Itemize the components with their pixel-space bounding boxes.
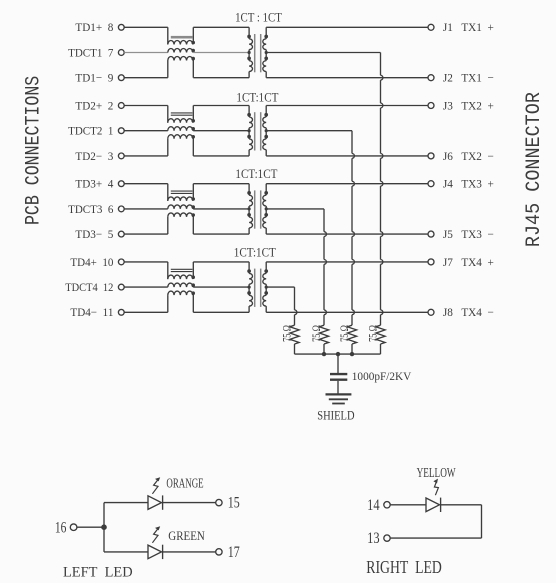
resistor R2 75 ohm — [347, 325, 356, 354]
pin J2 terminal — [428, 75, 434, 81]
pin label TD1- 9 — [75, 71, 113, 85]
common-mode choke L3 — [168, 184, 195, 234]
pin label TD2- 3 — [75, 149, 113, 163]
label 75 ohm R1 — [366, 325, 379, 342]
wire — [124, 52, 168, 54]
svg-text:J2 TX1 −: J2 TX1 − — [443, 71, 494, 85]
pin J4 terminal — [428, 181, 434, 187]
svg-text:75 Ω: 75 Ω — [338, 325, 351, 342]
wire — [266, 77, 428, 79]
svg-text:J1 TX1 +: J1 TX1 + — [443, 20, 494, 34]
wire — [193, 130, 249, 132]
pin label J6 TX2 - — [443, 149, 494, 163]
wire — [193, 311, 249, 313]
LED D1 orange — [148, 495, 163, 509]
pin label 17 — [228, 544, 240, 561]
resistor R4 75 ohm — [290, 325, 299, 354]
wire — [104, 502, 148, 504]
common-mode choke L2 — [168, 106, 195, 156]
svg-text:TD2− 3: TD2− 3 — [75, 149, 113, 163]
pin J5 terminal — [428, 231, 434, 237]
svg-text:TDCT1 7: TDCT1 7 — [68, 45, 113, 59]
wire — [193, 26, 249, 28]
pin label J4 TX3 + — [443, 177, 494, 191]
svg-text:TD1+ 8: TD1+ 8 — [75, 20, 113, 34]
label 1CT:1CT — [235, 166, 277, 181]
wire — [266, 208, 324, 210]
pin 11 terminal — [118, 309, 124, 315]
pin 12 terminal — [118, 284, 124, 290]
wire — [266, 130, 352, 132]
label GREEN — [168, 528, 205, 543]
svg-text:1CT:1CT: 1CT:1CT — [235, 166, 277, 181]
svg-text:TDCT3 6: TDCT3 6 — [68, 202, 113, 216]
wire — [124, 130, 168, 132]
pin label J7 TX4 + — [443, 255, 494, 269]
svg-text:TD2+ 2: TD2+ 2 — [75, 98, 113, 112]
wire — [266, 286, 294, 288]
wire — [337, 354, 339, 373]
transformer T3 — [247, 184, 268, 234]
wire — [124, 155, 168, 157]
wire — [193, 155, 249, 157]
wire — [124, 208, 168, 210]
pin label TD3- 5 — [75, 227, 113, 241]
pin label TD3+ 4 — [75, 177, 113, 191]
wire center-tap column ch1 — [381, 53, 383, 326]
pin 4 terminal — [118, 181, 124, 187]
svg-text:14: 14 — [367, 497, 380, 514]
wire — [266, 311, 428, 313]
pin 7 terminal — [118, 50, 124, 56]
wire — [266, 52, 380, 54]
pin 14 terminal — [384, 502, 390, 508]
wire — [337, 381, 339, 394]
svg-text:75 Ω: 75 Ω — [280, 325, 293, 342]
svg-text:LEFT LED: LEFT LED — [63, 565, 133, 581]
pin label 15 — [228, 495, 240, 512]
wire — [77, 526, 104, 528]
wire — [193, 52, 249, 54]
svg-text:TD1− 9: TD1− 9 — [75, 71, 113, 85]
svg-text:TDCT4 12: TDCT4 12 — [65, 280, 113, 294]
wire — [124, 183, 168, 185]
svg-text:J4 TX3 +: J4 TX3 + — [443, 177, 494, 191]
pin 5 terminal — [118, 231, 124, 237]
label YELLOW — [417, 465, 456, 480]
wire — [124, 105, 168, 107]
pin label TD1+ 8 — [75, 20, 113, 34]
svg-text:1000pF/2KV: 1000pF/2KV — [352, 369, 412, 383]
wire — [103, 503, 105, 552]
svg-text:TDCT2 1: TDCT2 1 — [68, 124, 113, 138]
wire — [124, 26, 168, 28]
pin J3 terminal — [428, 103, 434, 109]
LED D1 emission arrow — [152, 477, 160, 494]
pin 8 terminal — [118, 24, 124, 30]
svg-text:15: 15 — [228, 495, 240, 512]
svg-text:J3 TX2 +: J3 TX2 + — [443, 98, 494, 112]
pin J8 terminal — [428, 309, 434, 315]
transformer T1 — [247, 27, 268, 77]
common-mode choke L4 — [168, 262, 195, 312]
wire center-tap column ch2 — [352, 131, 354, 326]
label 1000pF/2KV — [352, 369, 412, 383]
junction — [336, 352, 340, 356]
wire — [124, 233, 168, 235]
svg-text:16: 16 — [55, 519, 67, 536]
pin label TDCT4 12 — [65, 280, 113, 294]
resistor R1 75 ohm — [376, 325, 385, 354]
label PCB CONNECTIONS (left title) — [22, 76, 45, 225]
pin label TD4- 11 — [70, 305, 113, 319]
common-mode choke L1 — [168, 27, 195, 77]
wire — [163, 551, 216, 553]
svg-text:TD4+ 10: TD4+ 10 — [70, 255, 113, 269]
pin label J5 TX3 - — [443, 227, 494, 241]
wire — [193, 286, 249, 288]
label ORANGE — [166, 476, 203, 491]
wire — [163, 502, 216, 504]
svg-text:1CT : 1CT: 1CT : 1CT — [235, 10, 282, 25]
label 1CT : 1CT — [235, 10, 282, 25]
svg-text:1CT:1CT: 1CT:1CT — [234, 245, 276, 260]
pin label 16 — [55, 519, 67, 536]
wire — [124, 311, 168, 313]
wire — [193, 233, 249, 235]
svg-text:J6 TX2 −: J6 TX2 − — [443, 149, 494, 163]
svg-text:13: 13 — [367, 530, 380, 547]
pin 13 terminal — [384, 535, 390, 541]
LED D3 emission arrow — [433, 479, 438, 496]
pin label J3 TX2 + — [443, 98, 494, 112]
wire — [266, 183, 428, 185]
wire — [193, 77, 249, 79]
junction node — [101, 524, 107, 530]
svg-text:J8 TX4 −: J8 TX4 − — [443, 305, 494, 319]
pin label TD4+ 10 — [70, 255, 113, 269]
wire — [193, 105, 249, 107]
wire — [193, 261, 249, 263]
pin label TDCT2 1 — [68, 124, 113, 138]
pin 10 terminal — [118, 259, 124, 265]
wire — [481, 505, 483, 538]
wire — [193, 183, 249, 185]
wire — [266, 261, 428, 263]
wire — [266, 105, 428, 107]
wire — [124, 261, 168, 263]
svg-text:RJ45 CONNECTOR: RJ45 CONNECTOR — [522, 92, 545, 247]
label 75 ohm R2 — [338, 325, 351, 342]
svg-text:TD4− 11: TD4− 11 — [70, 305, 113, 319]
pin 9 terminal — [118, 75, 124, 81]
LED D2 emission arrow — [152, 526, 160, 543]
resistor R3 75 ohm — [319, 325, 328, 354]
LED D3 yellow — [426, 498, 441, 512]
label RIGHT LED — [366, 557, 442, 577]
wire center-tap column ch3 — [324, 209, 326, 325]
wire — [104, 551, 148, 553]
junction — [322, 352, 326, 356]
svg-text:TD3+ 4: TD3+ 4 — [75, 177, 113, 191]
svg-text:PCB CONNECTIONS: PCB CONNECTIONS — [22, 76, 45, 225]
wire — [124, 286, 168, 288]
pin label J1 TX1 + — [443, 20, 494, 34]
svg-text:RIGHT LED: RIGHT LED — [366, 557, 442, 577]
wire ground bus — [295, 353, 381, 355]
svg-text:ORANGE: ORANGE — [166, 476, 203, 491]
wire — [124, 77, 168, 79]
pin 3 terminal — [118, 153, 124, 159]
pin label TD2+ 2 — [75, 98, 113, 112]
pin label TDCT1 7 — [68, 45, 113, 59]
pin label TDCT3 6 — [68, 202, 113, 216]
pin 17 terminal — [216, 549, 222, 555]
svg-text:J7 TX4 +: J7 TX4 + — [443, 255, 494, 269]
label 1CT:1CT — [236, 90, 278, 105]
svg-text:1CT:1CT: 1CT:1CT — [236, 90, 278, 105]
svg-text:75 Ω: 75 Ω — [366, 325, 379, 342]
pin J7 terminal — [428, 259, 434, 265]
pin label J2 TX1 - — [443, 71, 494, 85]
svg-text:J5 TX3 −: J5 TX3 − — [443, 227, 494, 241]
transformer T4 — [247, 262, 268, 312]
label LEFT LED — [63, 565, 133, 581]
pin J1 terminal — [428, 24, 434, 30]
pin 16 terminal — [70, 524, 77, 531]
transformer T2 — [247, 106, 268, 156]
pin label 14 — [367, 497, 380, 514]
wire — [193, 208, 249, 210]
svg-text:75 Ω: 75 Ω — [310, 325, 323, 342]
label 1CT:1CT — [234, 245, 276, 260]
svg-text:TD3− 5: TD3− 5 — [75, 227, 113, 241]
svg-text:SHIELD: SHIELD — [317, 409, 354, 423]
wire — [266, 233, 428, 235]
label 75 ohm R3 — [310, 325, 323, 342]
pin 15 terminal — [216, 499, 222, 505]
label SHIELD — [317, 409, 354, 423]
LED D2 green — [148, 545, 163, 559]
wire — [266, 26, 428, 28]
wire — [266, 155, 428, 157]
pin J6 terminal — [428, 153, 434, 159]
junction — [350, 352, 354, 356]
wire center-tap column ch4 — [295, 287, 297, 325]
wire — [441, 504, 482, 506]
wire — [390, 537, 482, 539]
pin label 13 — [367, 530, 380, 547]
pin 1 terminal — [118, 128, 124, 134]
label 75 ohm R4 — [280, 325, 293, 342]
svg-text:17: 17 — [228, 544, 240, 561]
pin 6 terminal — [118, 206, 124, 212]
capacitor C1 1000pF/2KV — [330, 374, 347, 380]
ground SHIELD symbol — [326, 394, 352, 403]
svg-text:YELLOW: YELLOW — [417, 465, 456, 480]
label RJ45 CONNECTOR (right title) — [522, 92, 545, 247]
pin label J8 TX4 - — [443, 305, 494, 319]
svg-text:GREEN: GREEN — [168, 528, 205, 543]
pin 2 terminal — [118, 103, 124, 109]
wire — [390, 504, 426, 506]
